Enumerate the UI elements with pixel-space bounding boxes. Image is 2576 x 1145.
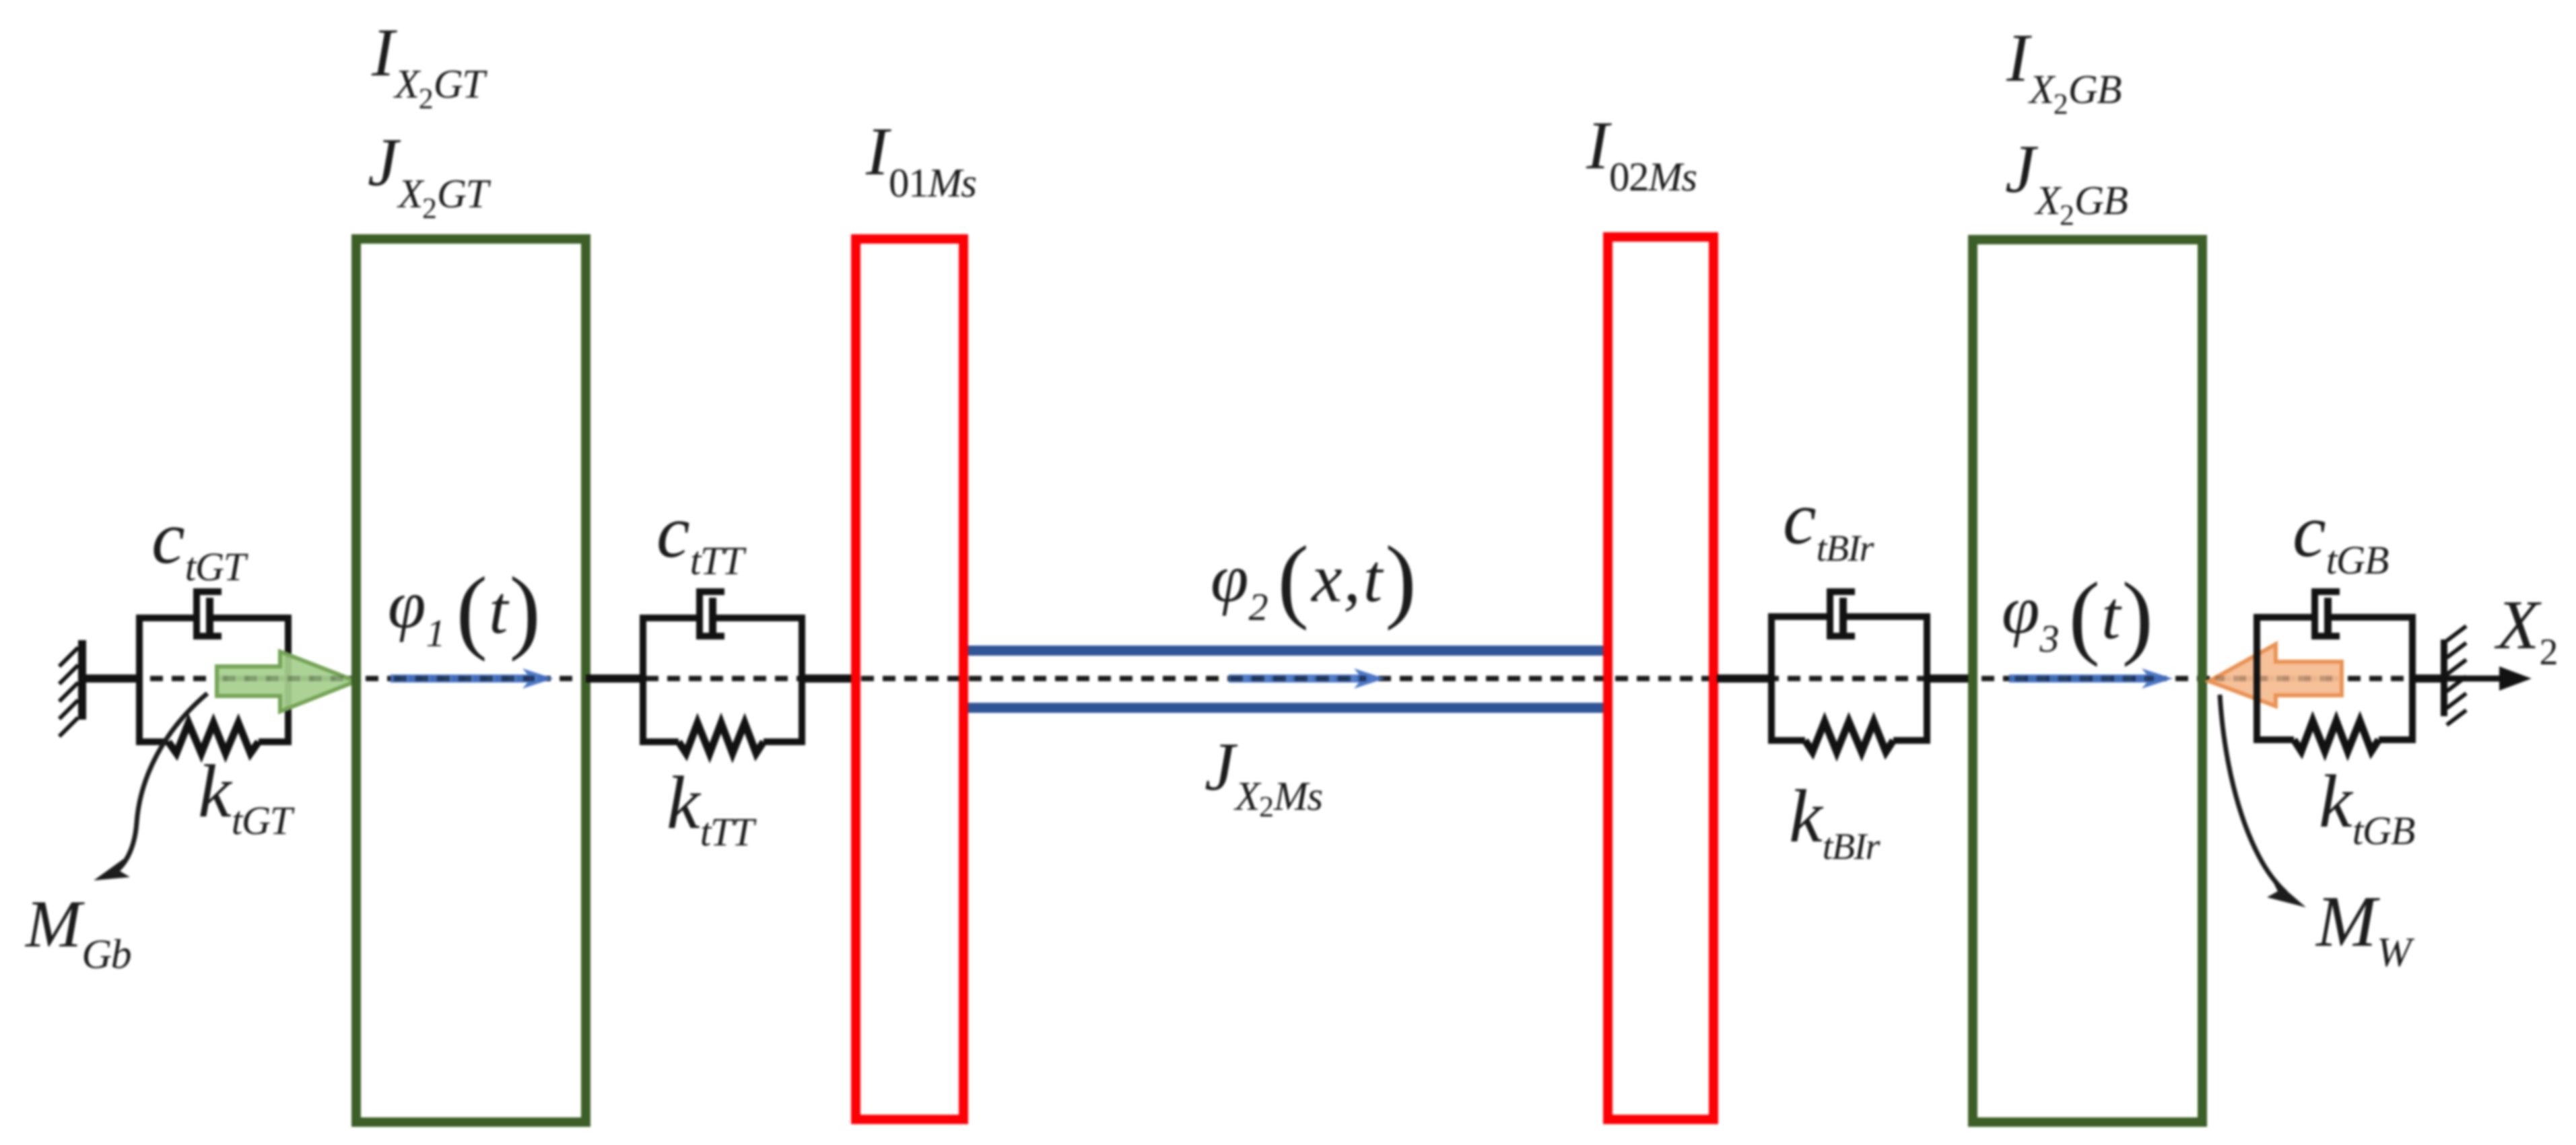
X2 axis arrow bbox=[2447, 666, 2532, 691]
wire left wall to box c_tGT bbox=[82, 674, 139, 683]
svg-text:MW: MW bbox=[2315, 882, 2415, 975]
svg-text:I01Ms: I01Ms bbox=[865, 114, 976, 206]
leader arrow M_W bbox=[2220, 695, 2306, 907]
svg-text:ctBIr: ctBIr bbox=[1783, 477, 1874, 569]
svg-text:ctGB: ctGB bbox=[2293, 489, 2389, 582]
svg-text:φ3(t): φ3(t) bbox=[2002, 563, 2153, 668]
spring-damper box c_tTT/k_tTT bbox=[643, 618, 802, 742]
svg-text:JX2GT: JX2GT bbox=[368, 125, 492, 225]
arrow phi1 bbox=[391, 668, 553, 689]
arrow phi3 bbox=[2009, 668, 2173, 689]
svg-text:ktBIr: ktBIr bbox=[1789, 775, 1880, 868]
svg-text:I02Ms: I02Ms bbox=[1586, 108, 1697, 200]
svg-text:IX2GB: IX2GB bbox=[2006, 20, 2121, 120]
damper c_tGT/k_tGT bbox=[197, 592, 222, 636]
wire box c_tTT to disc I_01Ms bbox=[801, 674, 854, 683]
inertia element I_X2GT green rectangle bbox=[356, 239, 586, 1122]
left wall support bbox=[59, 640, 86, 736]
orange torque reaction arrow bbox=[2209, 644, 2342, 706]
damper c_tBIr/k_tBIr bbox=[1830, 592, 1855, 636]
inertia element I_X2GB green rectangle bbox=[1973, 240, 2202, 1122]
spring c_tGT/k_tGT bbox=[168, 723, 259, 753]
spring c_tTT/k_tTT bbox=[679, 723, 764, 753]
spring c_tBIr/k_tBIr bbox=[1805, 722, 1893, 752]
svg-text:JX2Ms: JX2Ms bbox=[1205, 729, 1322, 823]
spring-damper box c_tBIr/k_tBIr bbox=[1771, 617, 1927, 740]
disc I_01Ms red rectangle bbox=[856, 239, 963, 1119]
damper c_tGB/k_tGB bbox=[2315, 592, 2340, 636]
svg-text:ktGB: ktGB bbox=[2319, 760, 2415, 853]
svg-text:X2: X2 bbox=[2494, 586, 2557, 673]
spring c_tGB/k_tGB bbox=[2294, 721, 2379, 751]
spring-damper box c_tGT/k_tGT bbox=[139, 618, 288, 742]
shaft upper blue line bbox=[968, 646, 1603, 656]
svg-text:IX2GT: IX2GT bbox=[371, 15, 487, 115]
right wall support bbox=[2441, 626, 2466, 725]
arrow phi2 bbox=[1229, 668, 1385, 689]
wire disc I_02Ms to box c_tBIr bbox=[1717, 674, 1773, 683]
svg-text:ctTT: ctTT bbox=[656, 490, 747, 583]
wire green rect 1 to box c_tTT bbox=[586, 674, 644, 683]
damper c_tTT/k_tTT bbox=[700, 592, 724, 636]
svg-text:φ1(t): φ1(t) bbox=[388, 558, 541, 662]
svg-text:ctGT: ctGT bbox=[151, 496, 248, 589]
shaft lower blue line bbox=[968, 703, 1603, 713]
svg-text:φ2(x,t): φ2(x,t) bbox=[1211, 527, 1417, 631]
svg-text:ktGT: ktGT bbox=[198, 750, 295, 843]
spring-damper box c_tGB/k_tGB bbox=[2257, 617, 2412, 740]
svg-text:JX2GB: JX2GB bbox=[2005, 131, 2128, 232]
leader arrow M_Gb bbox=[94, 693, 207, 880]
green torque input arrow bbox=[217, 652, 356, 712]
svg-text:MGb: MGb bbox=[24, 887, 131, 977]
axis dashed center line bbox=[86, 676, 2447, 681]
disc I_02Ms red rectangle bbox=[1608, 237, 1714, 1119]
wire box c_tBIr to green rect 2 bbox=[1926, 674, 1974, 683]
wire box c_tGB to right wall bbox=[2411, 674, 2447, 683]
svg-text:ktTT: ktTT bbox=[667, 761, 757, 854]
